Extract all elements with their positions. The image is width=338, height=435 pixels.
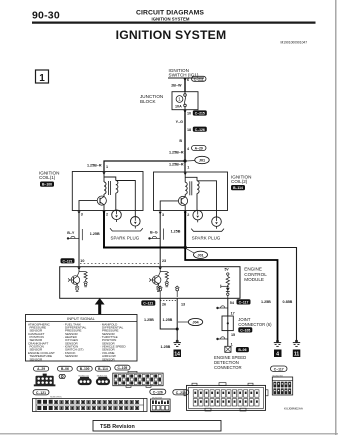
input signal box (26, 315, 138, 362)
thin bus to ground 11 (186, 248, 297, 342)
wire below joint connector (227, 331, 229, 347)
svg-text:CONNECTOR: CONNECTOR (214, 365, 242, 370)
coil1 plug2 feed (116, 181, 136, 217)
svg-text:MU801983C: MU801983C (50, 396, 62, 398)
ECM top connector dashed line (80, 263, 159, 265)
ground ref box 14 (174, 350, 182, 358)
svg-text:C–211: C–211 (194, 77, 204, 81)
coil1 secondary to plug1 (115, 193, 117, 210)
svg-text:2: 2 (106, 213, 108, 217)
svg-text:1: 1 (39, 73, 45, 84)
svg-text:CIRCUIT DIAGRAMS: CIRCUIT DIAGRAMS (136, 9, 204, 16)
svg-text:18: 18 (187, 128, 191, 132)
svg-text:B–100: B–100 (42, 183, 52, 187)
spark plug brace (110, 228, 143, 231)
twisted symbol B-Y (67, 237, 69, 239)
wire main feed from switch (184, 78, 186, 92)
svg-text:C–126: C–126 (153, 390, 163, 394)
thick ground bus (103, 247, 186, 249)
ignition coil 1 box (72, 172, 143, 211)
svg-text:B–114: B–114 (233, 186, 243, 190)
connector B-06 pinout (59, 375, 65, 379)
node grounds join (176, 328, 179, 331)
thick ground wire coil2 pin2 (184, 211, 186, 248)
pin 2 exit arrow (103, 211, 106, 214)
connector C-215 pinout (184, 383, 268, 411)
wire ECM pin26 down (160, 298, 177, 329)
svg-text:· MANIFOLDDIFFERENTIALPRESSURE: · MANIFOLDDIFFERENTIALPRESSURESENSOR· TH… (100, 322, 127, 361)
svg-text:1.25B: 1.25B (90, 232, 100, 236)
junction block box (172, 92, 198, 110)
svg-text:4: 4 (276, 352, 279, 358)
svg-text:1.25B–R: 1.25B–R (169, 163, 184, 167)
input signal arrow (95, 298, 105, 315)
svg-text:MODULE: MODULE (244, 277, 264, 282)
connector C-105 black label (238, 327, 252, 332)
svg-text:1.25B: 1.25B (144, 318, 154, 322)
svg-text:10: 10 (80, 259, 84, 263)
wire ECM pin13 down to ground14 (176, 298, 178, 341)
node coil grounds join (184, 246, 187, 249)
svg-text:10A: 10A (175, 105, 182, 109)
svg-text:J01: J01 (199, 159, 205, 163)
joint oval J04 (188, 318, 202, 325)
svg-text:4: 4 (187, 147, 190, 151)
ECM internal ground pin26 (158, 286, 162, 298)
svg-text:B–100: B–100 (80, 367, 90, 371)
connector B-06 black label (236, 347, 249, 352)
ground symbol 11 (293, 340, 300, 346)
fuse symbol (184, 94, 187, 97)
coil1 base line from pin3 (79, 201, 97, 211)
svg-text:Y–G: Y–G (176, 120, 184, 124)
svg-text:1.25B–R: 1.25B–R (87, 163, 102, 167)
connector C-105 pinout (113, 371, 163, 387)
svg-text:26: 26 (162, 302, 166, 306)
svg-text:B–114: B–114 (98, 367, 108, 371)
engine speed detection terminal (225, 346, 231, 352)
svg-text:KUJ08M02AA: KUJ08M02AA (284, 407, 303, 411)
svg-text:C–121: C–121 (63, 259, 73, 263)
ground symbol 14 (173, 340, 180, 346)
ignition switch bar (168, 77, 204, 79)
svg-text:11: 11 (294, 352, 300, 358)
svg-text:J04: J04 (192, 321, 199, 325)
connector B-100 pinout (78, 377, 92, 385)
svg-text:1.25B–R: 1.25B–R (169, 151, 184, 155)
spark plug B (131, 217, 141, 227)
svg-text:1.25B: 1.25B (171, 230, 181, 234)
svg-text:ATMOSPHERICPRESSURESENSORCAMSH: ATMOSPHERICPRESSURESENSORCAMSHAFTPOSITIO… (28, 322, 55, 361)
joint oval J01 second (194, 251, 208, 258)
TSB revision box (93, 421, 221, 432)
joint oval J01 (195, 156, 209, 163)
connector C-126 pinout (150, 399, 170, 411)
twisted symbol pin54 a (216, 306, 228, 309)
svg-text:2B–W: 2B–W (171, 83, 182, 87)
connector A-29 pinout (34, 374, 56, 387)
wire below junction block (184, 110, 186, 161)
coil1 secondary winding (116, 181, 118, 194)
wire branch to coil1 (104, 161, 185, 172)
connector B-114 pinout (96, 377, 110, 385)
svg-text:B: B (179, 139, 182, 143)
wire feed to coil2 (184, 161, 186, 172)
connector C-117 label (271, 366, 288, 371)
connector B-114 label (95, 366, 110, 371)
node junction feed split (183, 159, 186, 162)
connector C-126 black label (193, 127, 207, 132)
svg-text:IGNITION SYSTEM: IGNITION SYSTEM (152, 16, 190, 21)
ECM driver 2 (149, 270, 169, 291)
coil1 secondary top link (104, 177, 116, 181)
thick ground wire coil1 pin2 (103, 211, 105, 248)
connector B-100 black label (40, 182, 54, 187)
input signal header (26, 321, 138, 323)
svg-text:C–117: C–117 (274, 367, 284, 371)
ECM bottom pins 26 13 (141, 300, 155, 305)
svg-text:90-30: 90-30 (32, 10, 60, 22)
wire pin54 down (227, 298, 229, 316)
svg-text:17: 17 (231, 311, 235, 315)
svg-text:1.25B: 1.25B (161, 345, 171, 349)
svg-text:A–29: A–29 (195, 147, 203, 151)
connector C-215 black label (193, 110, 207, 115)
ground ref box 4 (274, 350, 282, 358)
svg-text:BLOCK: BLOCK (140, 99, 157, 104)
wire B-G coil2 pin3 to ECM pin23 (159, 211, 161, 267)
coil1 primary winding (78, 172, 143, 241)
svg-text:1: 1 (178, 97, 181, 102)
svg-text:1: 1 (106, 165, 108, 169)
wire tick B-G (163, 229, 165, 240)
svg-text:14: 14 (174, 352, 180, 358)
svg-text:6: 6 (187, 78, 189, 82)
ground symbol 4 (274, 340, 281, 346)
right page border (335, 0, 337, 435)
svg-text:CONNECTOR (6): CONNECTOR (6) (238, 322, 272, 327)
svg-text:ENGINE: ENGINE (244, 267, 262, 272)
ECM bottom connector dashed line (160, 300, 177, 302)
svg-text:M1901000901047: M1901000901047 (281, 41, 308, 45)
svg-text:C–121: C–121 (36, 391, 46, 395)
joint oval J01 second leader (186, 249, 194, 254)
svg-text:1.25B: 1.25B (261, 300, 271, 304)
wire B-Y coil1 pin3 to ECM pin10 (78, 211, 80, 267)
svg-text:B–06: B–06 (61, 367, 69, 371)
svg-text:C–105: C–105 (118, 366, 128, 370)
ECM driver 1 (68, 270, 88, 291)
svg-text:INPUT SIGNAL: INPUT SIGNAL (67, 316, 95, 321)
svg-text:C–105: C–105 (240, 329, 250, 333)
svg-text:C–117: C–117 (239, 301, 249, 305)
pin 3 exit arrow (78, 211, 81, 214)
twisted symbol B-G (148, 237, 150, 239)
svg-text:B–Y: B–Y (67, 231, 75, 235)
svg-text:3: 3 (81, 213, 83, 217)
ECM internal ground pin13 (175, 286, 179, 297)
connector B-06 label (58, 366, 73, 371)
connector A-29 stadium (192, 146, 207, 151)
circuit index box 1 (36, 70, 49, 83)
svg-text:5V: 5V (225, 268, 230, 272)
svg-text:C–215: C–215 (176, 391, 186, 395)
svg-text:B–G: B–G (150, 230, 158, 234)
header rule (32, 22, 316, 24)
connector A-29 label (34, 366, 49, 371)
svg-text:1: 1 (187, 166, 189, 170)
joint oval J04 leader (178, 321, 188, 323)
svg-text:54: 54 (230, 301, 235, 305)
junction block pin 10 exit arrow (184, 110, 187, 113)
svg-text:C–126: C–126 (195, 128, 205, 132)
svg-text:IGNITION SYSTEM: IGNITION SYSTEM (116, 28, 227, 42)
svg-text:B–06: B–06 (238, 348, 246, 352)
svg-text:J01: J01 (197, 253, 203, 257)
fuse 1 circled number (176, 96, 183, 103)
coil1 power transistor (103, 194, 105, 197)
svg-text:15: 15 (231, 333, 235, 337)
joint oval J01 leader (187, 160, 196, 163)
connector C-215 label (173, 390, 189, 395)
svg-text:0.85B: 0.85B (283, 300, 293, 304)
connector C-121 label (33, 390, 49, 395)
connector C-211 stadium (192, 76, 207, 81)
svg-text:COIL(1): COIL(1) (39, 175, 56, 180)
ignition switch pin 6 exit arrow (184, 78, 187, 81)
ECM pin 10 label (61, 258, 75, 263)
connector B-100 label (77, 366, 92, 371)
connector B-114 black label (231, 185, 245, 190)
ignition coil 2 box (154, 172, 228, 211)
thick bus to ground 4 (185, 248, 277, 341)
svg-text:1.25B: 1.25B (163, 318, 173, 322)
svg-text:SPARK PLUG: SPARK PLUG (111, 235, 140, 240)
spark plug A (112, 210, 122, 220)
svg-text:CONTROL: CONTROL (244, 272, 267, 277)
svg-text:23: 23 (162, 259, 166, 263)
coil1 core (108, 181, 110, 195)
ECM box (60, 267, 240, 299)
pin 1 entry arrow (103, 172, 106, 175)
ECM pin10 entry arrow (77, 267, 80, 270)
ground ref box 11 (293, 350, 301, 358)
connector C-126 label (150, 389, 166, 394)
svg-text:C–121: C–121 (143, 302, 153, 306)
connector C-121 pinout (33, 399, 148, 412)
svg-text:COIL(2): COIL(2) (231, 179, 248, 184)
wire tick B-Y (81, 229, 83, 240)
joint connector 6 box (222, 316, 233, 331)
svg-text:· FUEL TANKDIFFERENTIALPRESSUR: · FUEL TANKDIFFERENTIALPRESSURESENSOR· H… (63, 322, 87, 358)
svg-text:13: 13 (181, 302, 185, 306)
svg-text:A–29: A–29 (37, 367, 45, 371)
twisted symbol pin54 b (216, 337, 228, 340)
svg-text:10: 10 (187, 112, 191, 116)
connector C-117 pinout (272, 377, 292, 395)
connector C-105 label (115, 365, 130, 370)
coil2 symbol group (159, 172, 224, 241)
ECM pin23 entry arrow (159, 267, 162, 270)
svg-text:TSB Revision: TSB Revision (100, 424, 135, 430)
svg-text:C–215: C–215 (195, 112, 205, 116)
